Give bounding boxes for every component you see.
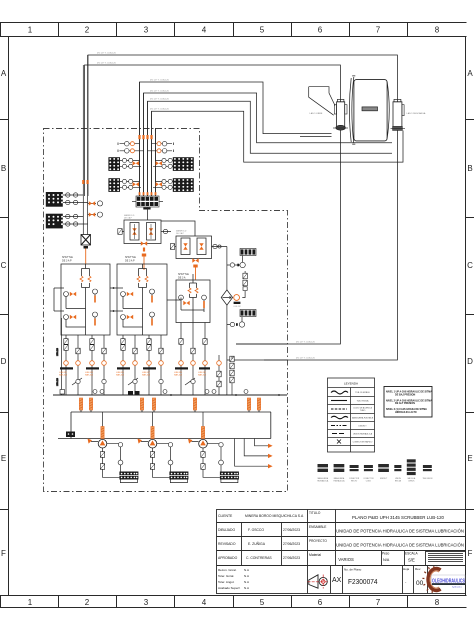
valve V1 under pump P1: [100, 452, 104, 458]
svg-text:4: 4: [202, 26, 207, 35]
svg-text:Ø1 1/2" T. LUB-120: Ø1 1/2" T. LUB-120: [296, 358, 316, 360]
svg-text:A: A: [467, 69, 473, 78]
block rows: [120, 160, 141, 187]
main manifold line: [53, 394, 287, 396]
svg-text:00: 00: [416, 580, 424, 587]
svg-text:LUB-132: LUB-132: [234, 306, 241, 308]
right mid: filter and manifolds: [217, 247, 287, 396]
svg-text:Rev.: Rev.: [415, 567, 421, 571]
svg-text:LEYENDA: LEYENDA: [344, 382, 358, 386]
svg-text:UNION HIDRAULICA: UNION HIDRAULICA: [353, 433, 373, 436]
bearing return right: [264, 130, 397, 360]
svg-text:7: 7: [376, 598, 381, 607]
svg-text:6: 6: [318, 598, 323, 607]
svg-text:UNIDAD DE POTENCIA HIDRAULICA: UNIDAD DE POTENCIA HIDRAULICA DE SISTEMA…: [336, 543, 464, 548]
oleohidraulics logo: [422, 566, 465, 593]
side ticks: [0, 120, 9, 510]
top ruler separators: [1, 23, 408, 37]
orange dashes above manifold: [139, 192, 157, 195]
svg-text:27/06/2023: 27/06/2023: [283, 542, 300, 546]
svg-text:SAE-100: SAE-100: [116, 374, 125, 377]
valve V2 under pump P2: [150, 452, 154, 458]
gauge row 1: [230, 262, 245, 327]
svg-text:C. CONTRERAS: C. CONTRERAS: [246, 556, 272, 560]
svg-text:MANGUERA FLEXIBLE: MANGUERA FLEXIBLE: [352, 417, 374, 420]
svg-text:CHECK: CHECK: [408, 480, 415, 482]
svg-text:E: E: [1, 454, 6, 463]
svg-text:3: 3: [144, 26, 149, 35]
shuttle valve box 3: [167, 273, 210, 323]
top fitting rows: [120, 144, 173, 151]
svg-text:HIDRAULICA: HIDRAULICA: [317, 479, 329, 482]
svg-text:SAE-100: SAE-100: [85, 374, 94, 377]
bearing right: [394, 99, 401, 101]
svg-text:Ø1 1/2" T. LUB-120: Ø1 1/2" T. LUB-120: [97, 63, 117, 65]
svg-text:HIDRAULICA: HIDRAULICA: [334, 479, 346, 482]
svg-text:MANIFOLD: MANIFOLD: [176, 230, 187, 233]
svg-text:Toler. Gnral.: Toler. Gnral.: [218, 574, 234, 578]
svg-text:MANIFOLD: MANIFOLD: [124, 214, 135, 217]
heater: [66, 432, 75, 438]
piping loops: [85, 55, 404, 360]
valve V5: [150, 464, 154, 470]
title block: [217, 510, 466, 594]
bottom symbol strip: [317, 459, 433, 482]
svg-text:TUBO: TUBO: [360, 410, 366, 412]
svg-text:Ø1 1/2" T. LUB-120: Ø1 1/2" T. LUB-120: [150, 80, 170, 82]
valve assembly 1: [118, 207, 195, 270]
svg-text:Rezon. Gnral.: Rezon. Gnral.: [218, 568, 237, 572]
svg-text:TEE UNION: TEE UNION: [423, 478, 433, 480]
X block: [81, 235, 91, 246]
svg-text:F: F: [1, 549, 6, 558]
feed chute: [309, 87, 335, 116]
svg-text:Ø1 1/2" T. LUB-120: Ø1 1/2" T. LUB-120: [150, 91, 170, 93]
svg-text:UNIDAD DE POTENCIA HIDRAULICA: UNIDAD DE POTENCIA HIDRAULICA DE SISTEMA…: [336, 529, 464, 534]
svg-text:Ø1 1/2" T. LUB-120: Ø1 1/2" T. LUB-120: [296, 342, 316, 344]
svg-text:DE 3 A P: DE 3 A P: [62, 260, 72, 263]
disclaimer tiny text: [428, 553, 463, 562]
svg-text:D: D: [1, 357, 7, 366]
wire bundle verticals: [140, 82, 156, 196]
valve V3 under pump P3: [201, 452, 205, 458]
svg-text:Acabado Superf.: Acabado Superf.: [218, 586, 241, 590]
svg-text:LADO DESCARGA: LADO DESCARGA: [407, 112, 426, 115]
svg-text:TUB. FLEXIBLE: TUB. FLEXIBLE: [355, 392, 370, 394]
pump P2: [148, 439, 157, 448]
svg-text:hydraulics: hydraulics: [452, 586, 463, 589]
cluster B: left supply rows: [46, 55, 103, 264]
svg-text:1: 1: [28, 26, 33, 35]
strainer S2: [169, 472, 188, 480]
svg-text:3: 3: [144, 598, 149, 607]
svg-text:F2300074: F2300074: [348, 577, 378, 586]
svg-text:N.A: N.A: [244, 586, 249, 590]
manifold block: [136, 196, 159, 207]
svg-text:5: 5: [260, 26, 265, 35]
pump groups: [88, 412, 239, 483]
svg-text:DIBUJADO: DIBUJADO: [218, 528, 236, 532]
svg-text:DE 3 A P: DE 3 A P: [176, 232, 185, 235]
svg-text:LUB-120: LUB-120: [57, 347, 59, 356]
svg-text:B: B: [467, 164, 472, 173]
bearing return left: [236, 130, 340, 344]
svg-text:1: 1: [28, 598, 33, 607]
svg-text:REVISADO: REVISADO: [218, 542, 236, 546]
hydraulic unit boundary (dash-dot): [44, 129, 288, 492]
svg-text:No. de Plano: No. de Plano: [344, 568, 362, 572]
svg-text:2: 2: [85, 26, 90, 35]
svg-text:PROYECTO: PROYECTO: [309, 539, 327, 543]
svg-text:C: C: [1, 261, 7, 270]
svg-text:Peso: Peso: [382, 552, 389, 556]
svg-text:Ø1 1/2" T. LUB-120: Ø1 1/2" T. LUB-120: [150, 109, 170, 111]
strainer S1: [119, 472, 138, 480]
shuttle valve box 1: [54, 256, 110, 335]
drain stubs to arrows: [235, 439, 268, 467]
svg-text:TUB. RIGIDA: TUB. RIGIDA: [356, 400, 369, 403]
projection symbol: [308, 575, 329, 589]
svg-text:RECTO: RECTO: [351, 480, 358, 482]
svg-text:ESCALA: ESCALA: [405, 552, 418, 556]
svg-text:Ø1 1/2" T. LUB-120: Ø1 1/2" T. LUB-120: [150, 99, 170, 101]
svg-text:SAE-100: SAE-100: [59, 374, 68, 377]
svg-text:27/06/2023: 27/06/2023: [283, 528, 300, 532]
svg-text:UNION T: UNION T: [380, 478, 388, 480]
valve V6: [201, 464, 205, 470]
svg-text:7: 7: [376, 26, 381, 35]
notes box: [384, 387, 432, 418]
legend table: [328, 378, 375, 452]
heater block upper: [46, 192, 63, 207]
svg-text:N.A: N.A: [244, 574, 249, 578]
svg-text:DE ALT PRESION: DE ALT PRESION: [395, 402, 415, 405]
svg-text:Ø1 1/2" T. LUB-120: Ø1 1/2" T. LUB-120: [97, 53, 117, 55]
svg-text:TITULO: TITULO: [309, 511, 321, 515]
check valves orange: [133, 161, 139, 165]
manifold blocks: [240, 249, 256, 256]
machine: scrubber: [309, 76, 426, 144]
svg-text:CLIENTE: CLIENTE: [218, 514, 233, 518]
svg-text:SAE-100: SAE-100: [174, 374, 183, 377]
svg-text:27/06/2023: 27/06/2023: [283, 556, 300, 560]
solenoid column: [243, 273, 247, 279]
svg-text:Hoja: Hoja: [403, 567, 410, 571]
tank header lines: [58, 410, 271, 439]
top row fittings: [130, 142, 161, 153]
svg-text:VARIOS: VARIOS: [338, 557, 354, 562]
svg-text:N.A: N.A: [244, 580, 249, 584]
svg-text:E. ZUÑIGA: E. ZUÑIGA: [248, 541, 266, 546]
svg-text:E: E: [467, 454, 472, 463]
svg-text:F: F: [468, 549, 473, 558]
svg-text:8: 8: [435, 598, 440, 607]
svg-text:D: D: [467, 357, 473, 366]
bearing left: [337, 99, 344, 101]
svg-text:MINERA BOROO MISQUICHILCA S.A: MINERA BOROO MISQUICHILCA S.A: [245, 514, 304, 518]
valve assembly 2: [170, 230, 221, 280]
svg-text:A: A: [1, 69, 7, 78]
pump P1: [98, 439, 107, 448]
svg-text:HIDRAULICA ALTO: HIDRAULICA ALTO: [395, 411, 417, 414]
svg-text:S/E: S/E: [408, 558, 415, 563]
pump P3: [199, 439, 208, 448]
svg-text:4: 4: [202, 598, 207, 607]
svg-text:CONECTOR RAPIDO: CONECTOR RAPIDO: [353, 441, 373, 444]
svg-text:DE 3 A P: DE 3 A P: [124, 217, 133, 220]
svg-text:8: 8: [435, 26, 440, 35]
orange relief valve: [234, 295, 240, 301]
svg-text:F. OSCCO: F. OSCCO: [248, 528, 264, 532]
svg-text:SAE-100: SAE-100: [142, 374, 151, 377]
flex connectors under manifold: [79, 398, 82, 410]
svg-text:5: 5: [260, 598, 265, 607]
valve columns under shuttle boxes: [57, 318, 210, 395]
filter diamond: [221, 290, 232, 305]
orange dots on bundle: [138, 135, 152, 139]
svg-text:PLANO P&ID UPH 3145 SCRUBBER L: PLANO P&ID UPH 3145 SCRUBBER LUB-120: [352, 515, 445, 520]
svg-text:N.A: N.A: [244, 568, 249, 572]
svg-text:B: B: [1, 164, 6, 173]
svg-text:DE BAJ PRESION: DE BAJ PRESION: [395, 393, 415, 396]
svg-text:CODO: CODO: [366, 480, 372, 482]
svg-text:N/A: N/A: [383, 558, 390, 562]
valve V4: [100, 464, 104, 470]
heater blocks: [108, 157, 120, 171]
svg-text:SAE-100: SAE-100: [198, 374, 207, 377]
svg-text:LUB-120: LUB-120: [57, 377, 59, 386]
svg-text:2: 2: [85, 598, 90, 607]
strainer S3: [220, 472, 239, 480]
svg-text:UNION T: UNION T: [358, 426, 367, 428]
svg-text:LADO LIBRE: LADO LIBRE: [310, 112, 323, 115]
heater block lower: [46, 214, 63, 229]
drum: [349, 77, 353, 143]
svg-text:Toler. Angul.: Toler. Angul.: [218, 580, 235, 584]
svg-text:AX: AX: [332, 577, 342, 584]
svg-text:C: C: [467, 261, 473, 270]
svg-text:ENSAMBLE: ENSAMBLE: [309, 525, 326, 529]
svg-text:Material: Material: [309, 553, 321, 557]
svg-text:APROBADO: APROBADO: [218, 556, 238, 560]
gauge circles: [122, 158, 172, 189]
pipe labels: [97, 53, 316, 360]
bottom ruler separators: [1, 596, 408, 608]
tank and pumps: [53, 390, 287, 483]
cluster A: feed bundle manifold rows: [108, 82, 193, 210]
svg-text:DE 3 A: DE 3 A: [178, 277, 186, 280]
svg-text:RECTA: RECTA: [395, 479, 402, 482]
svg-text:6: 6: [318, 26, 323, 35]
shuttle valve box 2: [110, 256, 167, 335]
svg-text:DE 3 A P: DE 3 A P: [125, 260, 135, 263]
